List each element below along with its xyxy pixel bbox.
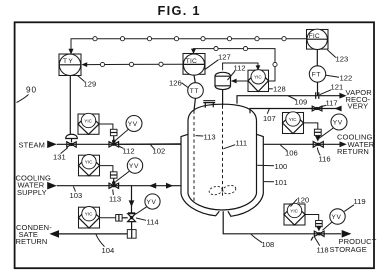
svg-text:118: 118 [317,246,329,255]
label 102 [150,144,165,155]
label 103 [70,186,83,200]
steam inlet arrow [47,141,57,149]
svg-text:YV: YV [146,199,156,206]
nitrogen/return line 107 [250,106,342,114]
valve 131 (control valve with diaphragm) [66,76,78,147]
wire YIC2 to valve 113 [100,166,113,172]
svg-text:109: 109 [295,98,308,107]
label 109 [288,96,307,107]
label 127 [205,53,231,70]
svg-text:FIG. 1: FIG. 1 [158,3,201,18]
label 128 [269,85,286,94]
wire pot 112 bottom to tank dome [222,90,224,106]
label 121 [320,83,343,95]
vapor line 109 [237,93,347,104]
flow arrows on cooling line [149,183,173,189]
steam line [57,143,181,145]
svg-text:121: 121 [331,83,344,92]
wire FIC to FT [316,49,318,66]
svg-text:102: 102 [153,147,166,156]
steam trap [127,222,136,239]
signal line B (YIC 128 to TIC) [191,47,277,82]
solenoid pilot YV (cooling) [116,158,143,182]
wire TT to thermowell [194,98,195,110]
svg-text:114: 114 [147,218,159,227]
drop line to condensate valve 114 [129,186,135,214]
cooling supply line 103 [57,185,181,187]
svg-text:YIC: YIC [85,160,93,165]
svg-text:111: 111 [236,139,248,148]
label 122 [326,74,352,83]
svg-text:YIC: YIC [85,212,93,217]
svg-text:120: 120 [297,196,310,205]
label 113 (thermowell) [196,133,216,142]
valve 114 (vertical with side solenoid) [128,213,136,222]
solenoid pilot YV (cooling return) [319,114,347,138]
svg-text:FIC: FIC [309,33,320,40]
svg-text:YV: YV [333,120,343,127]
tank inner vessel 100 [188,104,257,210]
svg-text:126: 126 [169,79,182,88]
label 113 (cooling valve) [109,190,121,204]
svg-text:YIC: YIC [289,117,297,122]
label 107 [263,109,276,123]
svg-text:101: 101 [275,178,288,187]
instrument TIC 127 [183,54,205,76]
svg-text:117: 117 [326,99,338,108]
wire pot 112 top to YIC 128 [223,63,261,70]
label 90 [17,86,38,103]
label 114 [136,218,159,227]
svg-text:113: 113 [204,133,216,142]
label 106 [280,145,297,158]
instrument FIC 123 [307,29,329,49]
label 100 [257,162,287,171]
svg-text:116: 116 [319,155,331,164]
label 129 [78,76,97,89]
svg-text:RETURN: RETURN [337,147,369,156]
label 117 [318,99,337,109]
svg-text:113: 113 [109,195,121,204]
wire YIC4 to valve 116 [304,123,318,129]
solenoid box for 118 [316,221,323,232]
label 104 [96,234,114,255]
tank jacket 101 [181,134,263,216]
cooling return arrow [340,141,347,147]
svg-text:TT: TT [190,88,199,95]
svg-text:YV: YV [129,163,139,170]
svg-text:128: 128 [273,85,286,94]
product arrow [342,230,352,238]
instrument YIC 128 [248,70,269,92]
valve 116 [313,142,323,148]
instrument YIC 2 (cooling) [79,155,100,176]
wire TIC to TT [194,75,195,83]
label 119 [344,197,365,211]
valve 113 (solenoid valve cooling) [109,172,119,189]
svg-text:104: 104 [102,246,115,255]
valve 117 [312,106,322,111]
signal line A (FIC to TY) [69,37,307,55]
valve 118 [311,231,324,240]
svg-text:VERY: VERY [348,102,369,111]
label 116 [317,148,330,164]
svg-text:YIC: YIC [254,75,262,80]
svg-text:RETURN: RETURN [16,237,48,246]
valve 112 (solenoid valve on steam line) [109,129,119,147]
solenoid box for 116 [314,129,321,141]
svg-text:103: 103 [70,191,83,200]
solenoid pilot YV (condensate) [136,194,160,214]
wire YIC1 to valve 112 [99,124,113,129]
label 108 [251,234,274,249]
cooling water inlet arrow [47,182,57,190]
thermowell 113 (dashed) [193,111,195,203]
svg-text:SUPPLY: SUPPLY [17,188,47,197]
signal line C (TIC to TY) [81,62,183,67]
label 118 [315,237,329,255]
instrument YIC 1 (steam) [78,113,99,134]
signal YIC 128 to pot 112 (arrow) [231,79,248,84]
svg-text:TIC: TIC [186,58,197,65]
agitator propeller [208,184,236,196]
svg-text:127: 127 [218,53,231,62]
tank top nozzle [203,101,215,108]
svg-text:119: 119 [354,197,366,206]
instrument YIC 4 (cooling return) [283,112,304,134]
instrument TT 126 [188,83,204,99]
svg-text:108: 108 [262,240,275,249]
svg-text:YV: YV [331,214,341,221]
label 120 [291,196,310,207]
label 131 [53,148,68,162]
solenoid pilot YV (steam) [115,116,142,141]
condensate return line 104 [49,230,127,238]
svg-text:STORAGE: STORAGE [330,245,367,254]
instrument FT 122 [309,66,325,82]
svg-text:131: 131 [53,153,66,162]
wire YIC3 to valve 114 [100,217,116,219]
svg-text:YIC: YIC [84,118,92,123]
cooling water return line 106 [263,143,339,145]
pot vessel 112 [215,72,231,89]
svg-text:YV: YV [128,121,138,128]
steam line 102 to jacket [119,143,181,146]
svg-text:YIC: YIC [290,208,298,213]
instrument YIC 5 (product) 120 [284,203,305,225]
svg-text:122: 122 [340,74,353,83]
svg-text:TY: TY [63,58,74,65]
svg-text:112: 112 [234,64,246,73]
svg-text:100: 100 [275,162,288,171]
svg-text:129: 129 [84,80,97,89]
label 126 [169,79,188,88]
label 111 [223,139,247,149]
sideways solenoid box for 114 [116,215,128,222]
instrument TY 129 [59,54,81,76]
label 112 (pot) [228,64,246,81]
instrument YIC 3 (condensate) [79,207,100,229]
svg-text:STEAM: STEAM [19,140,45,149]
wire FT to orifice junction [317,82,319,95]
wire YIC5 to valve 118 [305,215,319,221]
svg-text:123: 123 [336,55,349,64]
svg-text:112: 112 [123,147,135,156]
orifice 121 [316,92,319,99]
agitator shaft 111 [222,106,224,197]
svg-text:107: 107 [263,114,276,123]
label 123 [327,50,348,64]
svg-text:90: 90 [26,86,37,95]
product line 108 [223,211,341,234]
label 112 (steam valve) [119,146,135,156]
svg-text:FT: FT [312,72,321,79]
label 101 [264,178,287,187]
solenoid pilot YV (product) 119 [323,209,346,231]
